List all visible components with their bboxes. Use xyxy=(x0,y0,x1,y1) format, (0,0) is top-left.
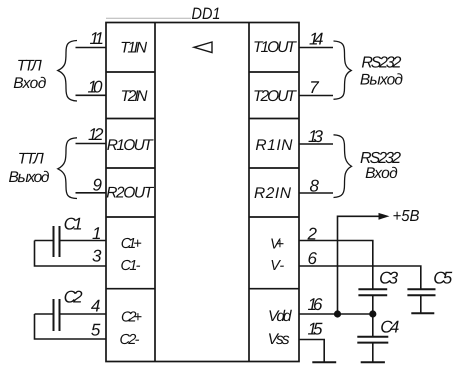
svg-text:+5В: +5В xyxy=(393,208,420,225)
svg-text:4: 4 xyxy=(91,297,100,316)
svg-text:R2OUT: R2OUT xyxy=(106,185,155,202)
svg-text:14: 14 xyxy=(309,30,324,49)
svg-text:6: 6 xyxy=(308,249,318,268)
svg-text:C2: C2 xyxy=(64,287,84,306)
svg-text:10: 10 xyxy=(88,78,104,97)
svg-text:8: 8 xyxy=(310,177,320,196)
svg-text:C4: C4 xyxy=(380,318,399,337)
svg-text:5: 5 xyxy=(91,321,101,340)
svg-text:T2OUT: T2OUT xyxy=(253,88,298,105)
svg-text:T1OUT: T1OUT xyxy=(253,39,298,56)
svg-text:Вход: Вход xyxy=(365,165,398,182)
svg-text:RS232: RS232 xyxy=(361,54,401,71)
svg-text:15: 15 xyxy=(308,320,324,339)
svg-text:13: 13 xyxy=(308,127,324,146)
svg-text:11: 11 xyxy=(90,29,105,48)
svg-text:2: 2 xyxy=(307,225,318,244)
svg-text:Выход: Выход xyxy=(9,169,50,186)
svg-text:Vdd: Vdd xyxy=(268,308,293,325)
svg-text:Вход: Вход xyxy=(13,75,46,92)
svg-text:DD1: DD1 xyxy=(192,5,221,23)
svg-text:C1: C1 xyxy=(64,215,83,234)
svg-text:12: 12 xyxy=(88,125,104,144)
svg-text:V-: V- xyxy=(270,258,284,274)
svg-text:C1-: C1- xyxy=(121,258,141,274)
svg-text:9: 9 xyxy=(93,175,103,194)
svg-text:R1IN: R1IN xyxy=(255,137,293,154)
svg-text:1: 1 xyxy=(92,224,101,243)
svg-text:ТТЛ: ТТЛ xyxy=(17,58,42,75)
svg-text:C3: C3 xyxy=(379,269,399,288)
svg-text:Выход: Выход xyxy=(360,72,403,89)
svg-text:V+: V+ xyxy=(270,236,284,252)
svg-text:C5: C5 xyxy=(433,269,453,288)
svg-text:Vss: Vss xyxy=(268,331,290,348)
svg-text:3: 3 xyxy=(92,246,102,265)
svg-text:T1IN: T1IN xyxy=(120,39,148,56)
svg-text:ТТЛ: ТТЛ xyxy=(18,151,44,168)
svg-text:C2+: C2+ xyxy=(121,309,142,325)
svg-text:7: 7 xyxy=(309,78,319,97)
svg-text:T2IN: T2IN xyxy=(121,88,149,105)
svg-text:R1OUT: R1OUT xyxy=(107,137,155,154)
svg-text:16: 16 xyxy=(308,295,324,314)
svg-text:C1+: C1+ xyxy=(121,236,142,252)
svg-text:C2-: C2- xyxy=(120,332,140,348)
svg-text:R2IN: R2IN xyxy=(254,185,292,202)
